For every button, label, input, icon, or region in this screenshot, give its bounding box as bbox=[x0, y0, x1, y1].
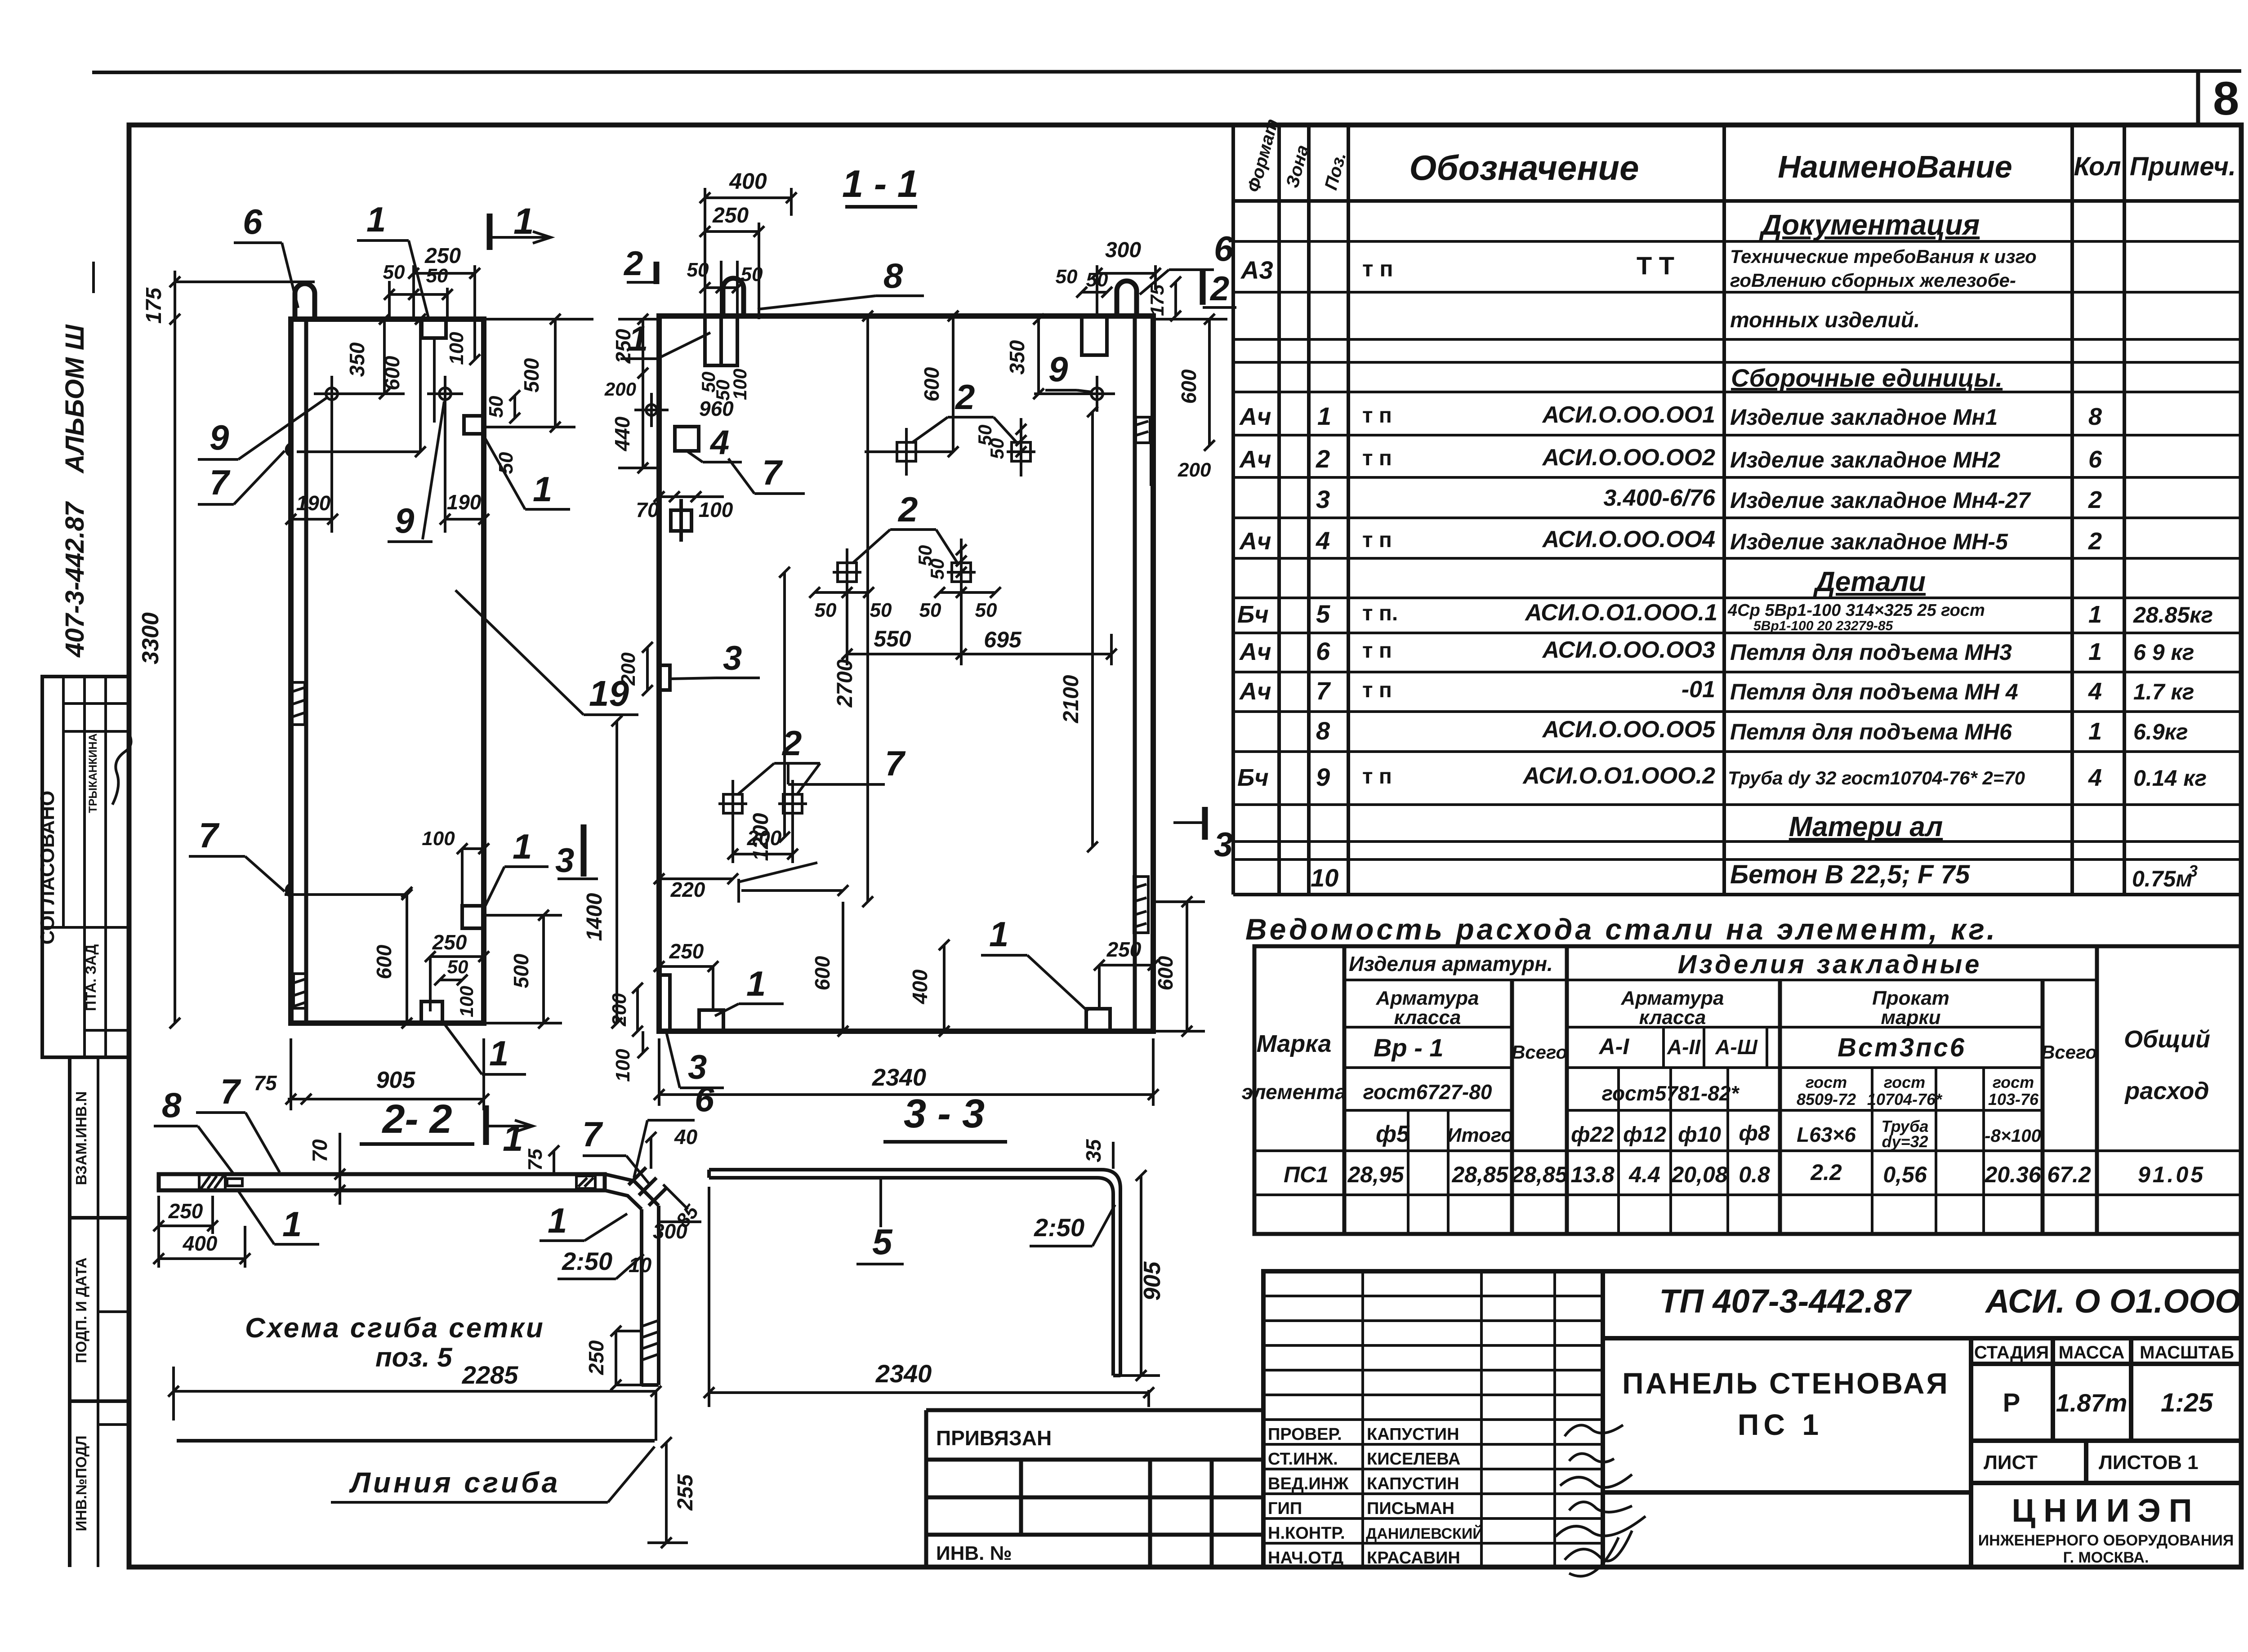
svg-text:ф12: ф12 bbox=[1623, 1123, 1666, 1147]
svg-text:550: 550 bbox=[874, 626, 911, 651]
svg-text:440: 440 bbox=[611, 416, 634, 451]
svg-text:АСИ.О.ОО.ОО2: АСИ.О.ОО.ОО2 bbox=[1542, 445, 1715, 471]
svg-text:100: 100 bbox=[422, 828, 455, 850]
dim 350 view A bbox=[332, 314, 405, 399]
view B loop pos8 bbox=[723, 278, 744, 316]
svg-text:гоВлению сборных железобе-: гоВлению сборных железобе- bbox=[1730, 270, 2016, 291]
svg-text:2:50: 2:50 bbox=[1034, 1213, 1084, 1242]
svg-text:1: 1 bbox=[2088, 601, 2102, 628]
dim 35 section 3-3 bbox=[1082, 1139, 1113, 1169]
svg-text:7: 7 bbox=[762, 453, 783, 492]
label 1 view A top bbox=[357, 200, 429, 321]
dim 600 view B mid left bbox=[865, 311, 959, 457]
svg-text:50: 50 bbox=[741, 263, 763, 285]
svg-text:МАССА: МАССА bbox=[2059, 1343, 2125, 1363]
label 2 pair3 bbox=[737, 723, 820, 795]
svg-text:Детали: Детали bbox=[1813, 566, 1926, 597]
svg-text:КАПУСТИН: КАПУСТИН bbox=[1367, 1474, 1459, 1493]
svg-text:Труба dу 32 гост10704-76* 2=7: Труба dу 32 гост10704-76* 2=70 bbox=[1728, 767, 2025, 788]
svg-text:Изделие закладное Мн1: Изделие закладное Мн1 bbox=[1730, 405, 1998, 430]
svg-text:АСИ.О.О1.ООО.1: АСИ.О.О1.ООО.1 bbox=[1524, 600, 1717, 626]
svg-text:1: 1 bbox=[513, 827, 532, 866]
svg-text:70: 70 bbox=[636, 498, 659, 521]
view A bottom right edge plate pos1 bbox=[462, 906, 484, 928]
dim 100 view A bottom right bbox=[422, 828, 489, 906]
dim 200 view B bottom left bbox=[608, 983, 643, 1037]
left form column sections bbox=[70, 1057, 129, 1567]
svg-text:АСИ.О.О1.ООО.2: АСИ.О.О1.ООО.2 bbox=[1522, 763, 1715, 789]
skhema sgiba text bbox=[245, 1313, 545, 1372]
svg-text:Обозначение: Обозначение bbox=[1409, 148, 1639, 187]
svg-text:75: 75 bbox=[254, 1071, 277, 1095]
svg-text:3: 3 bbox=[555, 842, 574, 880]
label 6 section 2-2 bbox=[634, 1079, 714, 1178]
label 19 bbox=[455, 590, 638, 715]
view A top loop pos6 bbox=[295, 284, 315, 319]
svg-text:50: 50 bbox=[870, 599, 892, 621]
spec row: sborochnye bbox=[1731, 364, 2003, 392]
svg-text:8: 8 bbox=[2088, 403, 2102, 430]
svg-text:5: 5 bbox=[872, 1222, 893, 1262]
title block doc numbers bbox=[1659, 1282, 2240, 1320]
svg-text:МАСШТАБ: МАСШТАБ bbox=[2140, 1343, 2234, 1363]
pta zad label bbox=[83, 944, 99, 1011]
dim 2700 view B bbox=[833, 311, 873, 907]
svg-text:Ач: Ач bbox=[1239, 528, 1271, 555]
svg-text:20,08: 20,08 bbox=[1671, 1162, 1727, 1187]
svg-text:350: 350 bbox=[345, 342, 369, 377]
dim 250 view B bottom left bbox=[654, 940, 718, 1011]
svg-text:190: 190 bbox=[447, 490, 482, 514]
signature squiggle bbox=[112, 733, 131, 805]
view A strip plate upper bbox=[292, 682, 305, 725]
spec row: detali bbox=[1813, 566, 1926, 597]
svg-text:1: 1 bbox=[503, 1118, 523, 1159]
section marker 3 left bbox=[555, 824, 598, 880]
dim 100 view B bottom left bbox=[612, 1031, 648, 1082]
svg-text:300: 300 bbox=[653, 1220, 687, 1243]
view A loop pos7 lower bbox=[287, 885, 291, 896]
svg-text:1: 1 bbox=[746, 964, 766, 1003]
label 9 view A second bbox=[388, 401, 444, 542]
dim 200 view B left plate3 bbox=[617, 642, 653, 696]
view A bottom plate pos1 bbox=[421, 1002, 442, 1023]
view B bottom left plate pos3 bbox=[660, 975, 670, 1031]
label 1 and section 3 marker right bbox=[485, 827, 549, 907]
svg-text:4Ср 5Вр1-100 314×325 25 гост: 4Ср 5Вр1-100 314×325 25 гост bbox=[1727, 601, 1985, 620]
title block stage/mass/scale bbox=[1974, 1343, 2234, 1474]
spec table row lines bbox=[1233, 241, 2241, 859]
dim 50 view A right plate bbox=[485, 390, 520, 474]
inv n podl label bbox=[73, 1436, 89, 1532]
svg-text:гост: гост bbox=[1993, 1073, 2034, 1091]
svg-text:ПИСЬМАН: ПИСЬМАН bbox=[1367, 1499, 1454, 1518]
svg-text:Матери ал: Матери ал bbox=[1789, 811, 1943, 842]
label 1 view B bottom right bbox=[981, 914, 1088, 1011]
dim 200 view B left circle bbox=[604, 378, 734, 420]
svg-text:Документация: Документация bbox=[1759, 209, 1980, 241]
svg-text:50: 50 bbox=[383, 261, 405, 283]
dim 250 rotated view B left bbox=[611, 314, 659, 378]
svg-text:АСИ.О.ОО.ОО1: АСИ.О.ОО.ОО1 bbox=[1542, 402, 1715, 428]
svg-text:10: 10 bbox=[629, 1253, 652, 1277]
vedomost title bbox=[1245, 913, 1998, 946]
label 1 section 2-2 right bbox=[540, 1201, 627, 1241]
dim 250 view A bottom bbox=[425, 931, 489, 1011]
label 8 section 2-2 bbox=[154, 1085, 234, 1174]
sheet number box line bbox=[2196, 71, 2200, 124]
svg-text:28.85кг: 28.85кг bbox=[2133, 602, 2213, 628]
spec row 4 bbox=[1239, 526, 2102, 555]
svg-text:28,85: 28,85 bbox=[1451, 1162, 1508, 1187]
view B left plate pos4 lower bbox=[671, 499, 691, 542]
svg-text:Изделие закладное МН2: Изделие закладное МН2 bbox=[1730, 447, 2000, 472]
svg-text:1 - 1: 1 - 1 bbox=[842, 163, 919, 205]
svg-text:Бетон В 22,5; F 75: Бетон В 22,5; F 75 bbox=[1730, 860, 1970, 889]
podp i data label bbox=[73, 1257, 89, 1363]
svg-text:175: 175 bbox=[1146, 284, 1168, 316]
svg-text:ПС1: ПС1 bbox=[1284, 1162, 1329, 1187]
svg-text:250: 250 bbox=[712, 204, 749, 227]
svg-text:20.36: 20.36 bbox=[1984, 1162, 2041, 1187]
svg-text:600: 600 bbox=[811, 956, 834, 990]
view B bottom right plate pos1 bbox=[1086, 1009, 1110, 1031]
svg-text:220: 220 bbox=[670, 878, 705, 901]
svg-text:ПРИВЯЗАН: ПРИВЯЗАН bbox=[936, 1426, 1052, 1450]
label 7 view A lower bbox=[189, 815, 285, 891]
svg-text:50: 50 bbox=[1086, 269, 1108, 291]
svg-text:500: 500 bbox=[520, 358, 543, 392]
view B strip plate right lower bbox=[1134, 877, 1148, 933]
spec row 2 bbox=[1239, 445, 2102, 473]
svg-text:250: 250 bbox=[168, 1199, 203, 1223]
dim 50 view A bottom bbox=[434, 956, 477, 1017]
label 2 pair1 bbox=[912, 377, 1017, 443]
svg-text:АСИ. О О1.ООО: АСИ. О О1.ООО bbox=[1985, 1282, 2241, 1320]
pair1 dims 50 50 bbox=[974, 418, 1026, 476]
svg-text:НАЧ.ОТД: НАЧ.ОТД bbox=[1268, 1549, 1343, 1567]
view B tube circle pos9 right bbox=[1034, 376, 1115, 412]
svg-text:100: 100 bbox=[456, 986, 477, 1017]
svg-text:250: 250 bbox=[432, 931, 467, 954]
svg-text:7: 7 bbox=[199, 815, 220, 855]
svg-text:ПОДП. И ДАТА: ПОДП. И ДАТА bbox=[73, 1257, 89, 1363]
svg-text:Схема сгиба сетки: Схема сгиба сетки bbox=[245, 1313, 545, 1344]
svg-text:0,56: 0,56 bbox=[1883, 1162, 1927, 1187]
view B pos2 squares pair1 bbox=[892, 428, 1035, 476]
view A loop pos7 upper bbox=[287, 444, 291, 455]
svg-text:10704-76*: 10704-76* bbox=[1867, 1090, 1943, 1109]
trykankina label bbox=[87, 733, 99, 813]
dim 600 view B right bbox=[1153, 314, 1227, 451]
svg-text:600: 600 bbox=[372, 944, 396, 979]
fold line label bbox=[331, 1447, 655, 1502]
svg-text:т п: т п bbox=[1362, 256, 1393, 281]
dim 2340 section 3-3 bbox=[704, 1187, 1154, 1407]
section 2-2 corner piece pos6 bbox=[605, 1167, 666, 1385]
view B loop pos6 bbox=[1117, 281, 1137, 316]
dim 75 rotated section 2-2 right bbox=[524, 1145, 559, 1174]
svg-text:1: 1 bbox=[989, 914, 1008, 954]
svg-text:407-3-442.87 АЛЬБОМ Ш: 407-3-442.87 АЛЬБОМ Ш bbox=[60, 324, 89, 658]
dim 250 top bbox=[408, 244, 480, 319]
svg-text:2340: 2340 bbox=[875, 1359, 932, 1388]
svg-text:100: 100 bbox=[612, 1049, 634, 1082]
svg-text:Сборочные единицы.: Сборочные единицы. bbox=[1731, 364, 2003, 392]
label 5 section 3-3 bbox=[856, 1180, 904, 1264]
spec row: dokumentatsiya bbox=[1759, 209, 1980, 241]
dim 70 section 2-2 bbox=[308, 1133, 345, 1205]
svg-text:Марка: Марка bbox=[1257, 1030, 1332, 1057]
svg-text:1: 1 bbox=[366, 200, 386, 239]
svg-text:3300: 3300 bbox=[138, 612, 164, 664]
svg-text:ТП 407-3-442.87: ТП 407-3-442.87 bbox=[1659, 1282, 1912, 1320]
vedomost header texts bbox=[1242, 950, 2210, 1151]
svg-text:Вр - 1: Вр - 1 bbox=[1374, 1033, 1444, 1062]
svg-text:СТ.ИНЖ.: СТ.ИНЖ. bbox=[1268, 1450, 1338, 1469]
svg-text:200: 200 bbox=[604, 378, 636, 400]
svg-text:4: 4 bbox=[1316, 526, 1330, 555]
dim 350 view B right bbox=[1005, 314, 1044, 399]
fold line drawing bbox=[177, 1439, 655, 1443]
svg-text:100: 100 bbox=[446, 332, 468, 365]
album rotated text 407-3-442.87 bbox=[60, 262, 94, 658]
svg-text:1: 1 bbox=[548, 1201, 567, 1240]
view A lower horizontal dim line bbox=[285, 889, 412, 900]
svg-text:9: 9 bbox=[395, 501, 415, 540]
svg-text:Всего: Всего bbox=[2041, 1042, 2097, 1063]
svg-text:Поз.: Поз. bbox=[1321, 150, 1350, 192]
section marker 1 top bbox=[490, 201, 551, 250]
svg-text:175: 175 bbox=[142, 287, 166, 324]
label 1 view B top left bbox=[620, 319, 710, 359]
svg-text:т п: т п bbox=[1362, 765, 1392, 788]
svg-text:1: 1 bbox=[2088, 718, 2102, 745]
dim 50 50 top bbox=[383, 261, 453, 319]
svg-text:Общий: Общий bbox=[2124, 1026, 2210, 1053]
spec row 7 bbox=[1239, 677, 2194, 705]
svg-text:Петля для подъема МН6: Петля для подъема МН6 bbox=[1730, 719, 2012, 744]
view B strip plate right upper bbox=[1136, 417, 1150, 443]
svg-text:600: 600 bbox=[920, 367, 943, 401]
dim 1400 between views bbox=[583, 716, 622, 1029]
svg-text:50: 50 bbox=[975, 599, 997, 621]
svg-text:Бч: Бч bbox=[1237, 601, 1269, 628]
svg-text:28,95: 28,95 bbox=[1347, 1162, 1404, 1187]
svg-text:1: 1 bbox=[1317, 402, 1331, 430]
vedomost table grid bbox=[1254, 946, 2241, 1234]
label 9 view A bbox=[198, 397, 327, 459]
top border thin line bbox=[92, 71, 2241, 72]
section marker 2 right bbox=[1203, 269, 1236, 308]
svg-text:2285: 2285 bbox=[462, 1361, 518, 1389]
dim 250 section 2-2 bbox=[153, 1196, 218, 1234]
label 7 view B bbox=[788, 744, 906, 784]
svg-text:АСИ.О.ОО.ОО5: АСИ.О.ОО.ОО5 bbox=[1542, 717, 1716, 743]
svg-text:35: 35 bbox=[1082, 1139, 1105, 1162]
svg-text:4: 4 bbox=[2088, 678, 2102, 705]
svg-text:7: 7 bbox=[210, 463, 231, 502]
section 3-3 title bbox=[883, 1091, 1007, 1142]
section marker 1 bottom bbox=[486, 1105, 533, 1159]
svg-text:2.2: 2.2 bbox=[1810, 1160, 1842, 1185]
label 2 pair2 bbox=[852, 490, 958, 563]
dim 220 view B bbox=[654, 873, 738, 901]
dim 40 section 2-2 bbox=[646, 1125, 698, 1169]
svg-text:Ач: Ач bbox=[1239, 403, 1271, 430]
label 2:50 section 2-2 bbox=[558, 1247, 644, 1279]
svg-text:250: 250 bbox=[669, 940, 704, 963]
svg-text:Изделия закладные: Изделия закладные bbox=[1678, 950, 1982, 979]
svg-text:3.400-6/76: 3.400-6/76 bbox=[1603, 485, 1716, 511]
title block name bbox=[1622, 1367, 1949, 1441]
svg-text:8: 8 bbox=[1316, 717, 1330, 745]
svg-text:ПРОВЕР.: ПРОВЕР. bbox=[1268, 1425, 1342, 1444]
title block signatures bbox=[1556, 1425, 1646, 1576]
view B bottom 600 dim helper bbox=[739, 863, 848, 903]
svg-text:2:50: 2:50 bbox=[562, 1247, 612, 1275]
svg-text:1.87т: 1.87т bbox=[2056, 1389, 2128, 1417]
svg-text:8: 8 bbox=[883, 256, 903, 295]
svg-text:ЛИСТОВ 1: ЛИСТОВ 1 bbox=[2099, 1452, 2199, 1474]
svg-text:2700: 2700 bbox=[833, 659, 857, 708]
section 3-3 bent mesh bbox=[709, 1170, 1120, 1376]
svg-text:250: 250 bbox=[611, 329, 635, 364]
dim 550 695 bbox=[842, 582, 1117, 665]
svg-text:0.8: 0.8 bbox=[1739, 1162, 1770, 1187]
svg-text:1400: 1400 bbox=[583, 893, 607, 941]
section marker 3 right bbox=[1173, 807, 1233, 864]
label 9 view B right bbox=[1045, 349, 1092, 392]
svg-text:400: 400 bbox=[908, 969, 932, 1004]
label 1 view B bottom left bbox=[715, 964, 784, 1016]
svg-text:2: 2 bbox=[623, 245, 643, 283]
svg-text:3: 3 bbox=[1316, 485, 1330, 513]
svg-text:ф8: ф8 bbox=[1739, 1122, 1770, 1145]
svg-text:Примеч.: Примеч. bbox=[2130, 152, 2236, 181]
svg-text:А-II: А-II bbox=[1667, 1035, 1701, 1059]
title block names bbox=[1366, 1425, 1484, 1567]
svg-text:1: 1 bbox=[489, 1033, 508, 1073]
svg-text:т п: т п bbox=[1362, 446, 1392, 470]
dim 600 view B bottom right bbox=[1153, 896, 1205, 1037]
svg-text:50: 50 bbox=[919, 599, 941, 621]
svg-text:поз. 5: поз. 5 bbox=[375, 1342, 453, 1372]
svg-text:905: 905 bbox=[1139, 1261, 1165, 1301]
spec table header texts bbox=[1244, 117, 2236, 195]
svg-text:АСИ.О.ОО.ОО3: АСИ.О.ОО.ОО3 bbox=[1542, 637, 1715, 663]
svg-text:0.75м: 0.75м bbox=[2132, 866, 2192, 891]
svg-text:класса: класса bbox=[1394, 1006, 1461, 1029]
svg-text:3: 3 bbox=[2189, 862, 2198, 880]
svg-text:КАПУСТИН: КАПУСТИН bbox=[1367, 1425, 1459, 1444]
svg-text:dу=32: dу=32 bbox=[1882, 1132, 1928, 1151]
svg-text:2100: 2100 bbox=[1059, 675, 1083, 723]
label 6 view B top right bbox=[1140, 229, 1234, 294]
dim 175 left bbox=[142, 271, 315, 325]
svg-text:905: 905 bbox=[376, 1067, 416, 1093]
svg-text:гост6727-80: гост6727-80 bbox=[1363, 1080, 1492, 1104]
label 6 view A bbox=[234, 202, 298, 308]
svg-text:200: 200 bbox=[617, 652, 639, 686]
svg-text:9: 9 bbox=[210, 418, 229, 457]
svg-text:расход: расход bbox=[2124, 1078, 2209, 1104]
svg-text:Н.КОНТР.: Н.КОНТР. bbox=[1268, 1524, 1345, 1543]
svg-text:1: 1 bbox=[513, 201, 534, 242]
label 1 view A bottom plate bbox=[442, 1021, 526, 1074]
svg-text:т п.: т п. bbox=[1362, 601, 1398, 625]
svg-text:300: 300 bbox=[1105, 238, 1141, 262]
vzam inv label bbox=[73, 1091, 89, 1185]
svg-text:6: 6 bbox=[2088, 446, 2102, 473]
svg-text:АСИ.О.ОО.ОО4: АСИ.О.ОО.ОО4 bbox=[1542, 526, 1715, 552]
svg-text:2: 2 bbox=[2088, 486, 2102, 513]
spec row 6 bbox=[1239, 637, 2194, 665]
svg-text:Формат: Формат bbox=[1244, 117, 1282, 195]
dim 255 fold bbox=[647, 1437, 697, 1548]
svg-text:960: 960 bbox=[699, 397, 734, 420]
svg-text:Ведомость расхода стали на: Ведомость расхода стали на элемент, кг. bbox=[1245, 913, 1998, 946]
view B outline bbox=[659, 316, 1153, 1031]
label 2:50 section 3-3 bbox=[1030, 1205, 1115, 1246]
spec row 3 bbox=[1316, 485, 2102, 513]
svg-text:А-I: А-I bbox=[1598, 1034, 1630, 1059]
svg-text:8: 8 bbox=[162, 1085, 182, 1125]
pair2 dims 50 horizontal bbox=[809, 587, 1001, 621]
svg-text:8509-72: 8509-72 bbox=[1797, 1090, 1856, 1109]
view A strip plate lower bbox=[294, 974, 306, 1008]
view B top left plate pos1 bbox=[705, 316, 737, 365]
svg-text:ПТА. ЗАД: ПТА. ЗАД bbox=[83, 944, 99, 1011]
dim 250 view B top bbox=[700, 204, 764, 319]
svg-text:3: 3 bbox=[723, 639, 742, 677]
view B pos2 squares pair3 bbox=[718, 780, 807, 828]
svg-text:Изделие закладное МН-5: Изделие закладное МН-5 bbox=[1730, 529, 2008, 554]
svg-text:50: 50 bbox=[986, 438, 1008, 459]
svg-text:5Вр1-100 20 2327: 5Вр1-100 20 23279-85 bbox=[1753, 619, 1894, 633]
view A tube circles pos9 bbox=[314, 376, 463, 412]
svg-text:Арматура: Арматура bbox=[1621, 987, 1724, 1009]
soglasovano label bbox=[36, 791, 58, 945]
svg-text:А3: А3 bbox=[1240, 256, 1273, 284]
svg-text:5: 5 bbox=[1316, 600, 1330, 628]
dim 100 view A top plate bbox=[446, 319, 480, 365]
view B tube circle pos9 left bbox=[634, 393, 669, 427]
dim 2285 bbox=[168, 1361, 661, 1441]
privyazan box bbox=[926, 1410, 1263, 1567]
soglasovano box bbox=[42, 677, 129, 1057]
dim 500 view A bottom right bbox=[484, 910, 562, 1029]
svg-text:Петля для подъема МН 4: Петля для подъема МН 4 bbox=[1730, 679, 2018, 704]
label 7 view B top bbox=[728, 453, 805, 494]
svg-text:т п: т п bbox=[1362, 404, 1392, 427]
svg-text:50: 50 bbox=[447, 956, 468, 977]
svg-text:Т Т: Т Т bbox=[1637, 251, 1674, 280]
svg-text:7: 7 bbox=[220, 1072, 241, 1111]
svg-text:600: 600 bbox=[1177, 369, 1200, 404]
svg-text:2: 2 bbox=[955, 377, 975, 417]
svg-text:-01: -01 bbox=[1682, 677, 1715, 703]
spec row 8 bbox=[1316, 717, 2188, 745]
svg-text:Технические требоВания к изго: Технические требоВания к изго bbox=[1730, 246, 2037, 267]
section marker 2 left bbox=[623, 245, 656, 284]
label 3 view B bottom bbox=[666, 1032, 724, 1088]
dim 10 section 2-2 bbox=[629, 1253, 652, 1277]
svg-text:Изделие закладное Мн4-27: Изделие закладное Мн4-27 bbox=[1730, 488, 2031, 513]
svg-text:ф10: ф10 bbox=[1678, 1123, 1721, 1147]
svg-text:Арматура: Арматура bbox=[1376, 987, 1479, 1009]
svg-text:1.7 кг: 1.7 кг bbox=[2133, 679, 2194, 704]
